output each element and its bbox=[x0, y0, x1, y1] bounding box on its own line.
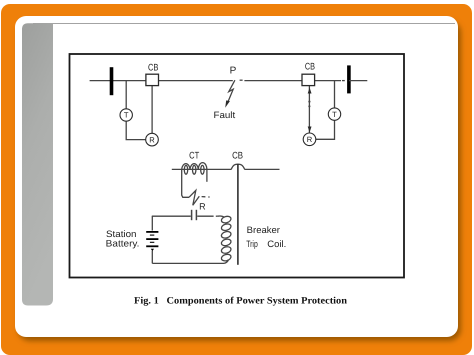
wire: right feeder bbox=[244, 80, 341, 82]
circuit breaker CB3 hump bbox=[231, 164, 245, 169]
wire: battery left vertical bbox=[151, 216, 153, 230]
relay R1 circle bbox=[146, 133, 159, 146]
wire: T2 to R2 link bbox=[316, 120, 335, 139]
wire: contact to coil bbox=[197, 215, 213, 217]
svg-text:Coil.: Coil. bbox=[267, 239, 286, 249]
station battery cells bbox=[146, 232, 158, 251]
bus bar right bbox=[347, 65, 351, 93]
bus bar left bbox=[110, 67, 114, 95]
wire: CT line left segment bbox=[172, 168, 232, 170]
relay contact bars bbox=[191, 210, 193, 220]
wire: T2 drop bbox=[334, 81, 336, 108]
svg-text:R: R bbox=[149, 135, 155, 144]
svg-text:P: P bbox=[230, 65, 237, 76]
fault lightning bolt bbox=[228, 80, 235, 103]
svg-text:Fault: Fault bbox=[214, 110, 236, 120]
wire: CB1 to R1 drop bbox=[151, 86, 153, 134]
wire: T1 drop bbox=[125, 81, 127, 109]
svg-text:Fig. 1 Components of Power S: Fig. 1 Components of Power System Protec… bbox=[134, 295, 348, 306]
gray side bar bbox=[22, 23, 53, 305]
circuit breaker CB2 box bbox=[302, 74, 315, 85]
wire: CT line right segment bbox=[245, 168, 280, 170]
node dash before right bus bbox=[342, 80, 345, 82]
fault arrowhead bbox=[225, 100, 230, 107]
svg-text:Breaker: Breaker bbox=[247, 225, 280, 235]
wire: CT secondary left drop bbox=[182, 169, 189, 197]
breaker trip link (CB3 vertical) bbox=[237, 164, 239, 264]
svg-text:CT: CT bbox=[189, 150, 199, 161]
wire: battery bottom vertical bbox=[151, 251, 153, 264]
svg-text:Trip: Trip bbox=[246, 239, 258, 249]
current transformer CT coil bbox=[182, 163, 207, 170]
tick marks on CB2-R2 drop bbox=[308, 101, 310, 103]
breaker trip coil helix bbox=[218, 215, 232, 263]
svg-text:CB: CB bbox=[148, 62, 158, 73]
svg-text:CB: CB bbox=[232, 150, 243, 161]
caption Fig. 1 bbox=[134, 295, 348, 306]
svg-text:T: T bbox=[124, 111, 129, 120]
wire: CB2 to R2 drop bbox=[308, 86, 310, 133]
transducer T2 circle bbox=[328, 108, 340, 120]
wire: CT secondary right drop bbox=[206, 169, 208, 181]
wire: battery circuit bottom bbox=[152, 262, 224, 264]
svg-text:Battery.: Battery. bbox=[106, 238, 140, 248]
arrowhead down on CB2-R2 drop bbox=[308, 127, 312, 133]
wire: battery circuit top bbox=[152, 215, 191, 217]
relay R operating element zigzag bbox=[189, 190, 199, 205]
svg-text:R: R bbox=[307, 135, 313, 144]
relay R2 circle bbox=[303, 133, 316, 146]
svg-text:R: R bbox=[199, 202, 206, 212]
wire: right bus stub bbox=[349, 80, 367, 82]
slide top rule bbox=[33, 23, 455, 25]
node P break dash bbox=[240, 79, 243, 81]
svg-text:CB: CB bbox=[305, 62, 315, 73]
relay dash-dot lead bbox=[202, 196, 206, 198]
arrowhead up on CB2-R2 drop bbox=[308, 88, 312, 94]
diagram border box bbox=[70, 54, 405, 278]
circuit breaker CB1 box bbox=[146, 74, 159, 85]
wire: T1 to R1 link bbox=[126, 121, 146, 139]
svg-text:T: T bbox=[332, 110, 337, 119]
wire: left feeder bbox=[90, 80, 233, 82]
transducer T1 circle bbox=[120, 109, 132, 121]
